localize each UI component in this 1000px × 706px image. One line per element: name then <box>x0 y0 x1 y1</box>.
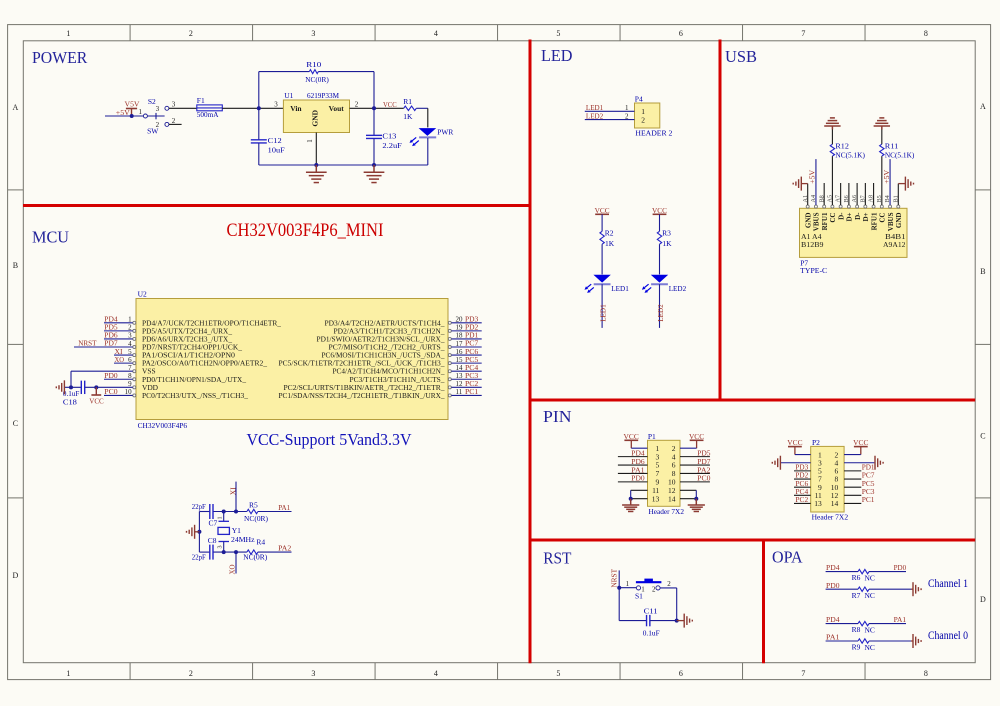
svg-text:PD0: PD0 <box>826 581 840 590</box>
svg-text:C8: C8 <box>208 536 217 545</box>
svg-text:USB: USB <box>725 47 757 66</box>
svg-text:CH32V003F4P6_MINI: CH32V003F4P6_MINI <box>227 220 384 241</box>
svg-text:A: A <box>980 102 986 111</box>
section title LED <box>541 46 573 65</box>
push button S1 <box>635 579 671 601</box>
svg-text:R8: R8 <box>852 625 861 634</box>
svg-text:14: 14 <box>668 494 676 503</box>
svg-text:R2: R2 <box>605 229 614 238</box>
net PD0 wire <box>104 371 133 380</box>
wire XO row <box>199 551 291 553</box>
svg-text:8: 8 <box>924 29 928 38</box>
svg-text:S2: S2 <box>148 97 156 106</box>
pins A7 B6 A6 B7 A8 stubs <box>841 183 874 205</box>
svg-text:7: 7 <box>801 29 805 38</box>
svg-text:PC1: PC1 <box>465 387 479 396</box>
svg-text:4: 4 <box>434 29 438 38</box>
svg-text:R3: R3 <box>662 229 671 238</box>
crystal Y1 24MHz <box>217 512 256 553</box>
svg-text:R4: R4 <box>256 537 265 546</box>
svg-text:P1: P1 <box>648 432 656 441</box>
ground symbol crystal <box>187 525 200 539</box>
wire net LED2 to P4 pin2 <box>585 111 635 120</box>
svg-text:C: C <box>13 419 18 428</box>
svg-text:1K: 1K <box>403 112 413 121</box>
capacitor C18 0.1uF <box>63 381 85 407</box>
svg-text:PA2/OSCO/A0/T1CH2N/OPP0/AETR2_: PA2/OSCO/A0/T1CH2N/OPP0/AETR2_ <box>142 359 267 368</box>
wire XI row <box>199 511 291 513</box>
svg-text:POWER: POWER <box>32 48 87 67</box>
svg-text:NC: NC <box>865 643 875 652</box>
ground symbol RST <box>677 614 693 628</box>
svg-text:PC2: PC2 <box>795 495 808 504</box>
junction +5V node <box>130 114 134 118</box>
svg-text:13: 13 <box>814 499 822 508</box>
ground symbol P2 left <box>772 456 780 470</box>
resistor R7 NC <box>852 587 875 600</box>
svg-text:RFU1: RFU1 <box>870 212 878 230</box>
section title MCU <box>32 227 69 246</box>
svg-text:B: B <box>980 267 985 276</box>
svg-text:3: 3 <box>156 105 160 113</box>
svg-text:D+: D+ <box>846 212 854 221</box>
svg-text:2: 2 <box>189 29 193 38</box>
svg-text:PD0: PD0 <box>104 371 118 380</box>
svg-text:2: 2 <box>667 580 671 588</box>
svg-text:5: 5 <box>556 669 560 678</box>
power port VCC P1 left <box>624 432 639 448</box>
svg-text:1: 1 <box>625 104 629 112</box>
svg-text:P4: P4 <box>635 94 643 103</box>
svg-text:8: 8 <box>924 669 928 678</box>
ground symbol above R12 <box>824 118 840 130</box>
svg-text:NC: NC <box>865 625 875 634</box>
wire PWR LED to rail <box>427 138 429 165</box>
svg-text:F1: F1 <box>197 96 205 105</box>
wire R6 to PD0 <box>869 563 906 572</box>
svg-text:1K: 1K <box>605 239 615 248</box>
capacitor C12 10uF <box>251 108 285 165</box>
svg-text:+5V: +5V <box>882 169 891 184</box>
svg-text:D: D <box>980 595 986 604</box>
power port VCC above R2 <box>595 206 610 215</box>
P2 pin4 ground wire right <box>844 462 874 464</box>
svg-text:7: 7 <box>801 669 805 678</box>
wire VCC to P2 pin2 <box>844 454 861 456</box>
svg-text:LED1: LED1 <box>598 304 607 322</box>
svg-text:U1: U1 <box>284 91 293 100</box>
net label XI vertical <box>228 487 237 495</box>
net label V5V <box>125 99 141 108</box>
LED LED1 <box>585 275 630 293</box>
wire R3 to LED2 <box>659 244 661 274</box>
svg-text:R11: R11 <box>885 142 899 151</box>
wire LED1 cathode <box>601 284 603 328</box>
svg-text:D-: D- <box>854 212 862 220</box>
svg-text:22pF: 22pF <box>192 553 206 562</box>
svg-text:500mA: 500mA <box>197 110 219 119</box>
svg-text:4: 4 <box>434 669 438 678</box>
svg-text:CH32V003F4P6: CH32V003F4P6 <box>138 421 188 430</box>
ground symbol under U1 <box>306 165 327 183</box>
pin B8 stub <box>823 183 825 205</box>
wire PD4 to R6 <box>826 563 858 572</box>
svg-text:GND: GND <box>311 109 320 126</box>
header P4 HEADER 2 <box>635 94 673 137</box>
svg-text:SW: SW <box>147 126 159 135</box>
net label PA1 crystal <box>278 503 290 512</box>
junction VSS riser on VDD rail <box>69 385 73 389</box>
svg-text:Vin: Vin <box>290 104 302 113</box>
wire VCC to P1 pin1 <box>631 447 647 449</box>
resistor R2 1K <box>600 214 615 248</box>
svg-text:B: B <box>13 261 18 270</box>
svg-text:R10: R10 <box>306 60 321 69</box>
svg-text:R5: R5 <box>249 501 258 510</box>
ground symbol P2 right <box>875 456 883 470</box>
power port VCC P2 right <box>853 438 868 454</box>
net label XO wire <box>114 355 133 364</box>
wire S1 pin2 down <box>660 588 677 621</box>
wire R2 to LED1 <box>601 244 603 274</box>
svg-text:LED2: LED2 <box>656 304 665 322</box>
section title RST <box>543 549 572 568</box>
wire VCC to P1 pin2 <box>680 447 697 449</box>
resistor R5 NC(0R) <box>244 501 268 524</box>
wire LED2 cathode <box>659 284 661 328</box>
P1 pins 12 14 ground wires <box>680 490 698 500</box>
section title USB <box>725 47 757 66</box>
LED PWR blue <box>410 127 454 146</box>
wire XI vertical <box>235 482 237 512</box>
fuse F1 500mA <box>197 96 223 119</box>
net NRST / pin PD7 wire <box>74 339 133 348</box>
resistor R1 1K <box>403 97 416 121</box>
P1 pins 11 13 ground wires <box>629 490 648 500</box>
wire PA1 to R9 <box>826 633 858 642</box>
svg-text:VBUS: VBUS <box>813 212 821 231</box>
svg-text:A: A <box>13 103 19 112</box>
svg-text:NC(5.1K): NC(5.1K) <box>885 151 915 160</box>
P1 right net wires PD5 PD7 PA2 PC0 <box>680 448 711 482</box>
resistor R3 1K <box>657 214 672 248</box>
resistor R11 NC(5.1K) <box>880 130 915 206</box>
svg-text:Channel 1: Channel 1 <box>928 578 968 590</box>
svg-text:Vout: Vout <box>329 104 345 113</box>
net label NRST vertical <box>610 568 619 587</box>
resistor R12 NC(5.1K) <box>830 130 865 206</box>
header P1 body <box>648 432 685 516</box>
section title PIN <box>543 407 572 426</box>
wire R9 to ground <box>869 640 913 642</box>
junction C11 right node <box>675 619 679 623</box>
junction crystal top left <box>222 510 226 514</box>
VDD wire with C18 <box>65 386 133 388</box>
P2 right net wires <box>844 462 875 504</box>
junction crystal bottom left <box>222 550 226 554</box>
svg-text:3: 3 <box>172 101 176 109</box>
svg-text:Header 7X2: Header 7X2 <box>649 507 685 516</box>
wire R1 to PWR LED <box>416 108 428 127</box>
svg-text:OPA: OPA <box>772 548 803 567</box>
svg-text:5: 5 <box>556 29 560 38</box>
P2 pin3 ground wire left <box>781 462 811 464</box>
USB type-c connector P7 body <box>800 208 908 275</box>
regulator U1 6219P33M <box>274 91 359 143</box>
svg-text:R12: R12 <box>835 142 849 151</box>
ground symbol above R11 <box>874 118 890 130</box>
svg-text:R7: R7 <box>852 591 861 600</box>
svg-text:13: 13 <box>652 494 660 503</box>
power port VCC P2 left <box>787 438 802 454</box>
svg-text:VBUS: VBUS <box>887 212 895 231</box>
svg-text:PD4: PD4 <box>826 563 840 572</box>
svg-text:Y1: Y1 <box>232 526 241 535</box>
svg-text:22pF: 22pF <box>192 502 206 511</box>
P1 left net wires PD4 PD6 PA1 PD0 <box>618 448 648 482</box>
section title POWER <box>32 48 87 67</box>
net label +5V left rotated <box>808 169 817 184</box>
svg-text:VCC-Support 5Vand3.3V: VCC-Support 5Vand3.3V <box>247 430 413 449</box>
svg-text:LED1: LED1 <box>611 284 629 293</box>
svg-text:R6: R6 <box>852 573 861 582</box>
svg-text:1: 1 <box>66 29 70 38</box>
svg-text:PC1: PC1 <box>862 495 875 504</box>
net label LED1 vertical <box>598 304 607 322</box>
net PC0 wire <box>104 387 133 396</box>
svg-text:10uF: 10uF <box>268 146 285 155</box>
ground symbol under C13 <box>364 165 385 183</box>
wire +5V input <box>105 115 145 117</box>
svg-text:NRST: NRST <box>78 339 97 348</box>
net label PA2 crystal <box>278 544 291 553</box>
wire net LED1 to P4 pin1 <box>585 103 635 112</box>
caption VCC-Support 5Vand3.3V <box>247 430 413 449</box>
svg-text:R1: R1 <box>403 97 412 106</box>
wire R7 to ground <box>869 588 913 590</box>
U2 right pin name column <box>279 318 445 400</box>
power port VCC above R3 <box>652 206 667 215</box>
pin A1 GND wire to ground <box>802 184 808 205</box>
junction VCC tap <box>94 385 98 389</box>
svg-text:3: 3 <box>274 101 278 109</box>
junction NRST node <box>617 586 621 590</box>
pin B1 GND wire to ground <box>898 184 905 205</box>
capacitor C11 0.1uF <box>643 607 677 638</box>
svg-text:Header 7X2: Header 7X2 <box>812 513 849 522</box>
svg-text:LED2: LED2 <box>586 111 604 120</box>
wire U1 GND pin <box>315 133 317 166</box>
U2 left net wires PD4 PD5 PD6 <box>104 315 133 340</box>
svg-text:1: 1 <box>66 669 70 678</box>
resistor R4 NC(0R) <box>243 537 267 561</box>
wire PD0 to R7 <box>826 581 858 590</box>
svg-text:0.1uF: 0.1uF <box>643 629 660 638</box>
P2 left net wires <box>794 462 811 504</box>
svg-text:PC0/T2CH3/UTX_/NSS_/T1CH3_: PC0/T2CH3/UTX_/NSS_/T1CH3_ <box>142 391 248 400</box>
svg-text:+5V: +5V <box>808 169 817 184</box>
wire XO vertical <box>235 552 237 573</box>
ground symbol P1 left <box>622 499 639 512</box>
svg-text:XO: XO <box>227 564 236 575</box>
svg-text:MCU: MCU <box>32 227 69 246</box>
stub switch pin2 <box>169 117 182 125</box>
svg-text:LED2: LED2 <box>669 284 687 293</box>
svg-text:6: 6 <box>679 669 683 678</box>
svg-text:PC0: PC0 <box>697 474 711 483</box>
svg-text:2: 2 <box>641 116 645 125</box>
svg-text:NRST: NRST <box>610 568 619 587</box>
svg-text:GND: GND <box>804 213 812 229</box>
ground symbol left of C18 <box>56 380 64 394</box>
ground symbol USB left <box>793 177 801 191</box>
MCU U2 body CH32V003F4P6 <box>136 290 448 430</box>
svg-text:C11: C11 <box>644 607 658 616</box>
svg-text:1: 1 <box>626 580 630 588</box>
svg-text:C18: C18 <box>63 397 77 406</box>
ground symbol USB right <box>905 177 913 191</box>
svg-text:6219P33M: 6219P33M <box>307 91 339 100</box>
wire NRST to S1 <box>619 580 636 588</box>
wire R8 to PA1 <box>869 615 906 624</box>
svg-text:2: 2 <box>172 117 176 125</box>
wire fuse to U1 Vin <box>222 107 283 109</box>
svg-text:PD0: PD0 <box>631 474 645 483</box>
pin B4 VBUS wire <box>889 159 891 205</box>
capacitor C13 2.2uF <box>366 108 402 165</box>
svg-text:CC: CC <box>829 213 837 223</box>
svg-text:2: 2 <box>355 101 359 109</box>
power port +5V <box>116 108 137 117</box>
P7 pin designators rotated <box>802 195 900 203</box>
svg-text:NC(0R): NC(0R) <box>243 553 267 562</box>
svg-text:A9A12: A9A12 <box>883 240 906 249</box>
svg-text:NC(0R): NC(0R) <box>244 514 268 523</box>
net label XI wire <box>114 347 133 356</box>
power port VCC P1 right <box>689 432 704 448</box>
capacitor C7 22pF <box>192 502 218 528</box>
svg-text:GND: GND <box>895 213 903 229</box>
svg-text:24MHz: 24MHz <box>231 535 255 544</box>
wire crystal left branch <box>198 512 200 553</box>
svg-text:2: 2 <box>625 112 629 120</box>
VSS pin wire and riser <box>71 371 133 387</box>
LED LED2 <box>642 275 687 293</box>
svg-text:2: 2 <box>652 586 656 594</box>
svg-text:PC0: PC0 <box>104 387 118 396</box>
svg-text:V5V: V5V <box>125 99 141 108</box>
svg-text:2.2uF: 2.2uF <box>382 141 402 150</box>
svg-text:3: 3 <box>217 545 224 548</box>
wire switch pin3 to fuse <box>169 101 197 109</box>
resistor R8 NC <box>852 621 875 634</box>
svg-text:3: 3 <box>311 29 315 38</box>
U2 right pin circles and numbers <box>448 316 463 397</box>
svg-text:B12B9: B12B9 <box>801 240 824 249</box>
header P2 body <box>811 438 849 521</box>
ground symbol R9 <box>913 634 921 648</box>
section title OPA <box>772 548 803 567</box>
svg-text:NC: NC <box>865 573 875 582</box>
svg-text:U2: U2 <box>138 290 147 299</box>
svg-text:LED: LED <box>541 46 573 65</box>
svg-text:PIN: PIN <box>543 407 572 426</box>
svg-text:3: 3 <box>311 669 315 678</box>
junction XI node <box>234 510 238 514</box>
svg-text:NC(0R): NC(0R) <box>305 75 329 84</box>
svg-text:VCC: VCC <box>383 100 397 109</box>
junction GND pin / rail <box>314 163 318 167</box>
power port VCC under MCU <box>89 387 104 405</box>
resistor R10 NC(0R) bypass loop <box>259 60 374 108</box>
svg-text:S1: S1 <box>635 591 643 600</box>
U2 left pin circles and numbers <box>125 316 136 397</box>
svg-text:PC1/SDA/NSS/T2CH4_/T2CH1ETR_/T: PC1/SDA/NSS/T2CH4_/T2CH1ETR_/T1BKIN_/URX… <box>279 391 445 400</box>
svg-text:NC: NC <box>865 591 875 600</box>
junction XO node <box>234 550 238 554</box>
net label LED2 vertical <box>656 304 665 322</box>
capacitor C8 22pF <box>192 536 217 562</box>
switch S2 <box>139 97 169 135</box>
net label XO vertical <box>227 564 236 575</box>
svg-text:2: 2 <box>189 669 193 678</box>
svg-text:VCC: VCC <box>89 397 104 406</box>
U2 left pin name column <box>142 318 281 400</box>
svg-text:R9: R9 <box>852 643 861 652</box>
svg-text:PA1: PA1 <box>894 615 907 624</box>
svg-text:TYPE-C: TYPE-C <box>800 266 827 275</box>
ground symbol R7 <box>913 582 921 596</box>
svg-text:PA1: PA1 <box>826 633 840 642</box>
sheet title CH32V003F4P6_MINI <box>227 220 384 241</box>
svg-text:NC(5.1K): NC(5.1K) <box>835 151 865 160</box>
pin A4 VBUS wire <box>815 159 817 205</box>
svg-text:RFU1: RFU1 <box>821 212 829 230</box>
P7 pin circles <box>806 205 900 208</box>
svg-text:D+: D+ <box>862 212 870 221</box>
svg-text:P2: P2 <box>812 438 820 447</box>
wire NRST vertical <box>618 570 620 587</box>
svg-text:D-: D- <box>837 212 845 220</box>
ground symbol P1 right <box>688 499 705 512</box>
svg-text:PA2: PA2 <box>278 544 291 553</box>
svg-text:1: 1 <box>139 108 143 116</box>
svg-text:14: 14 <box>831 499 839 508</box>
svg-text:C13: C13 <box>382 132 396 141</box>
resistor R6 NC <box>852 569 875 582</box>
svg-text:RST: RST <box>543 549 572 568</box>
svg-text:PD4: PD4 <box>826 615 840 624</box>
svg-text:1: 1 <box>306 139 314 143</box>
wire NRST down to C11 <box>619 588 646 621</box>
svg-text:XO: XO <box>115 355 125 364</box>
wire U1 Vout to VCC node <box>350 107 404 109</box>
svg-text:C12: C12 <box>268 136 282 145</box>
junction C13 / rail <box>372 163 376 167</box>
label Channel 1 <box>928 578 968 590</box>
resistor R9 NC <box>852 639 875 652</box>
P7 pin name column rotated <box>804 212 903 231</box>
ground rail POWER <box>259 164 428 166</box>
svg-text:PWR: PWR <box>437 127 453 136</box>
svg-text:C: C <box>980 432 985 441</box>
wire VCC to P2 pin1 <box>795 454 811 456</box>
net label VCC power <box>383 100 397 109</box>
svg-text:1K: 1K <box>662 239 672 248</box>
svg-text:PA1: PA1 <box>278 503 290 512</box>
net label +5V right rotated <box>882 169 891 184</box>
svg-text:6: 6 <box>679 29 683 38</box>
